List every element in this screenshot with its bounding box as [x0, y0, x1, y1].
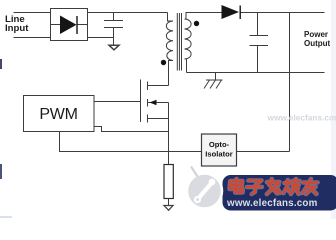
left edge artifact 2 [0, 164, 2, 179]
wire source node down [168, 103, 170, 165]
wire right feedback rail [289, 13, 291, 152]
resistor R1 [164, 165, 173, 199]
ground secondary hatched [204, 80, 223, 89]
polarity dot secondary [194, 21, 199, 26]
wire primary to drain [169, 61, 174, 86]
output diode D1 [222, 5, 240, 19]
wire secondary top to diode [185, 13, 222, 20]
svg-text:www.elecfans.com: www.elecfans.com [226, 198, 318, 209]
PWM box U1 [24, 96, 95, 132]
wire PWM current sense [94, 127, 169, 132]
capacitor C1 input [104, 13, 123, 46]
logo bead top [209, 179, 216, 186]
ground arrow resistor [164, 206, 173, 211]
mosfet Q1 gate bar [140, 80, 142, 123]
opto-isolator box U2 [202, 134, 237, 166]
svg-text:Input: Input [5, 23, 29, 34]
rectifier box [51, 9, 88, 41]
right edge light band [331, 0, 336, 219]
capacitor C2 output [250, 13, 269, 73]
wire transformer primary step [168, 13, 174, 22]
watermark navy box [223, 175, 336, 211]
rectifier mid wire [51, 24, 88, 26]
svg-text:Output: Output [304, 39, 331, 48]
wire resistor to ground [168, 199, 170, 206]
wire rectifier to transformer top rail [88, 12, 168, 14]
transformer T1 primary winding [166, 21, 173, 61]
left edge artifact 1 [0, 59, 2, 69]
wire line input top [14, 12, 51, 14]
output diode cathode bar [239, 6, 241, 20]
mosfet Q1 channel segments [147, 82, 149, 123]
svg-text:Power: Power [304, 30, 328, 39]
svg-text:Isolator: Isolator [205, 150, 232, 159]
polarity dot primary [161, 60, 166, 65]
svg-text:PWM: PWM [39, 106, 77, 123]
wire opto to output rail [237, 151, 290, 153]
wire output bottom rail [187, 72, 325, 74]
rectifier diode cathode bar [76, 16, 78, 34]
watermark red chinese text dian zi fa shao you [229, 179, 318, 194]
mosfet Q1 drain stub [148, 85, 169, 87]
wire secondary bottom to output ground rail [185, 59, 187, 73]
logo bead bottom [194, 196, 201, 203]
ground arrow input [109, 45, 119, 50]
mosfet body arrow [150, 100, 157, 106]
wire line input bottom [14, 37, 51, 39]
logo diagonal bar [197, 183, 213, 201]
logo tail [191, 167, 198, 177]
svg-text:Opto-: Opto- [209, 140, 230, 149]
mosfet Q1 source stub [148, 118, 169, 120]
rectifier diode triangle [60, 16, 77, 35]
wire PWM gate [94, 101, 141, 103]
logo circle [187, 174, 222, 209]
wire PWM feedback to opto [60, 132, 202, 152]
wire rectifier to input cap bottom [88, 37, 114, 39]
transformer T1 secondary winding [185, 19, 192, 59]
mosfet Q1 body stub [148, 102, 169, 104]
svg-text:www.elecfans.com: www.elecfans.com [267, 113, 336, 123]
bottom left edge smudge [0, 216, 12, 218]
wire output top rail [240, 12, 325, 14]
ground secondary stem [215, 73, 217, 81]
transformer core [177, 13, 181, 71]
